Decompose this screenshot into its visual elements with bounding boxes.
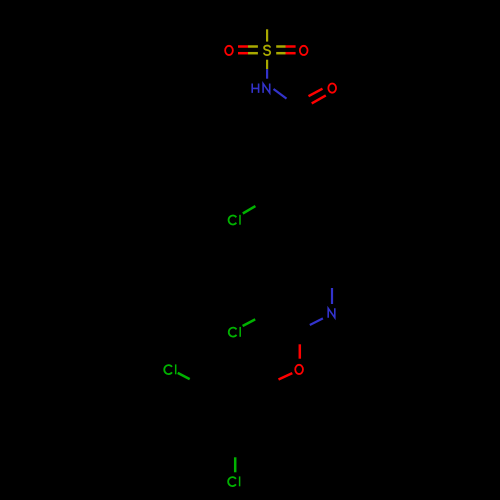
bond Cl-pyridine (green half) [243, 319, 256, 326]
bond S=O left, upper line [238, 45, 258, 48]
atom O (sulfonyl left) [225, 46, 233, 55]
bond C2-O ether (red half near O) [299, 344, 302, 358]
bond Cl5'-phenyl (green half) [234, 457, 237, 472]
atom Cl (phenoxy 3') [164, 364, 175, 374]
bond C6-N pyridine (blue half near N) [331, 288, 333, 304]
bond S=O right, upper line [276, 45, 295, 48]
atom Cl (pyridine) [229, 327, 240, 337]
atom O (carbonyl) [328, 84, 336, 93]
atom Cl (phenoxy 5') [228, 476, 239, 486]
bond Cl-benzene (green half) [243, 206, 256, 213]
atom O (sulfonyl right) [300, 46, 308, 55]
atom HN (sulfonamide) [252, 84, 270, 93]
bond Cl3'-phenyl (green half) [178, 373, 190, 379]
bond C=O carbonyl, upper red half [309, 89, 323, 97]
bond CH3-S (olive half near S) [266, 29, 268, 41]
bond C=O carbonyl, lower red half [312, 95, 326, 103]
atom O (ether) [295, 365, 303, 374]
bond S=O right, lower line [276, 52, 295, 55]
bond N-C carbonyl (blue half near N) [274, 89, 287, 99]
bond S=O left, lower line [238, 52, 258, 55]
bond S-N (olive half + blue half) [266, 60, 268, 79]
atom N (pyridine) [328, 308, 335, 317]
bond C2-N pyridine (blue half near N) [310, 318, 323, 325]
atom S (sulfonyl) [264, 46, 270, 56]
atom Cl (benzene) [229, 215, 240, 225]
bond O-C1' phenoxy (red half near O) [279, 373, 293, 379]
